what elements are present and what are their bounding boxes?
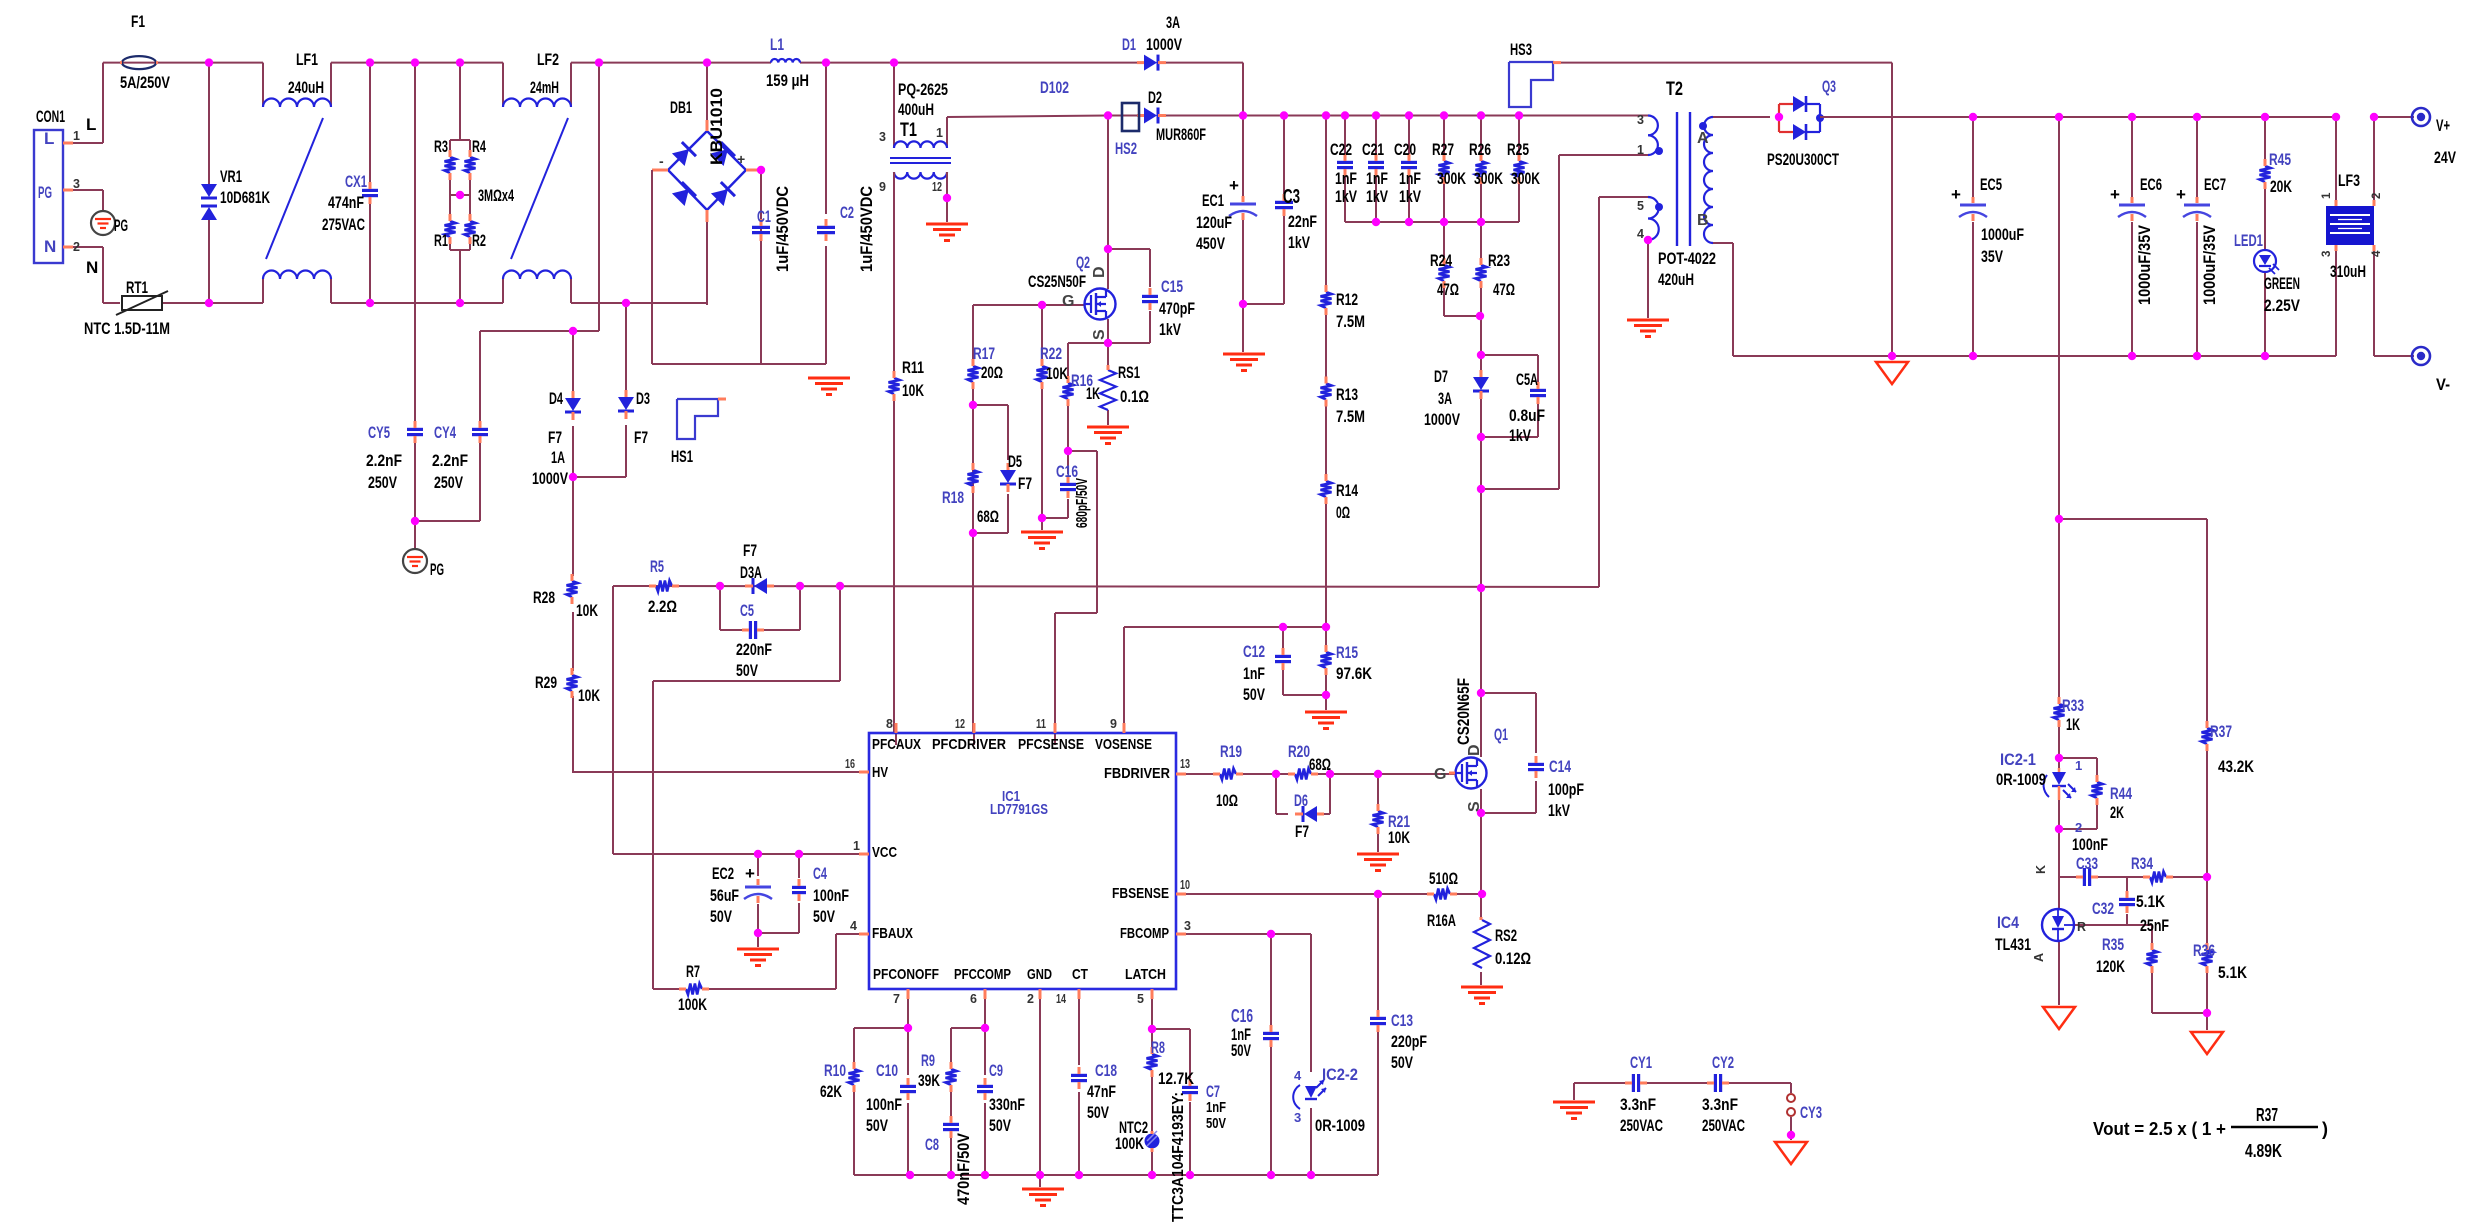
svg-text:LED1: LED1 [2234, 231, 2263, 250]
svg-text:1000uF/35V: 1000uF/35V [2135, 224, 2154, 305]
svg-text:V+: V+ [2436, 116, 2450, 135]
svg-text:GREEN: GREEN [2264, 274, 2300, 293]
svg-text:50V: 50V [1087, 1103, 1109, 1122]
svg-text:10K: 10K [1388, 828, 1411, 847]
svg-text:100nF: 100nF [866, 1095, 902, 1114]
svg-text:10D681K: 10D681K [220, 188, 271, 207]
svg-text:50V: 50V [813, 907, 835, 926]
svg-text:250VAC: 250VAC [1702, 1116, 1745, 1135]
svg-text:+: + [2110, 185, 2120, 204]
svg-text:R44: R44 [2110, 784, 2132, 803]
svg-text:R7: R7 [686, 962, 700, 981]
svg-text:470nF/50V: 470nF/50V [954, 1132, 973, 1205]
svg-text:D5: D5 [1008, 452, 1022, 471]
svg-text:L: L [44, 129, 54, 148]
svg-text:FBAUX: FBAUX [872, 925, 913, 942]
svg-text:CY3: CY3 [1800, 1103, 1822, 1122]
svg-text:0.8uF: 0.8uF [1509, 406, 1545, 425]
svg-text:12.7K: 12.7K [1158, 1069, 1195, 1088]
svg-text:K: K [2034, 865, 2048, 874]
svg-text:1: 1 [73, 129, 80, 143]
svg-text:R16A: R16A [1427, 911, 1456, 930]
svg-text:D: D [1091, 266, 1108, 278]
svg-text:5A/250V: 5A/250V [120, 73, 170, 92]
svg-text:56uF: 56uF [710, 886, 739, 905]
svg-text:-: - [659, 153, 664, 169]
svg-text:0.12Ω: 0.12Ω [1495, 949, 1531, 968]
svg-text:CS25N50F: CS25N50F [1028, 272, 1086, 291]
svg-text:S: S [1466, 801, 1483, 812]
svg-text:R37: R37 [2210, 722, 2232, 741]
svg-text:C32: C32 [2092, 899, 2114, 918]
svg-text:3A: 3A [1438, 389, 1452, 408]
svg-text:1000V: 1000V [1424, 410, 1460, 429]
svg-text:C22: C22 [1330, 140, 1352, 159]
svg-text:100nF: 100nF [2072, 835, 2108, 854]
svg-text:2: 2 [2371, 193, 2383, 199]
svg-text:1nF: 1nF [1399, 169, 1421, 188]
svg-text:3.3nF: 3.3nF [1702, 1095, 1738, 1114]
svg-text:F7: F7 [743, 541, 757, 560]
svg-text:510Ω: 510Ω [1429, 869, 1458, 888]
svg-text:3: 3 [879, 130, 886, 144]
svg-text:R29: R29 [535, 673, 557, 692]
svg-text:100K: 100K [1115, 1134, 1145, 1153]
svg-text:C14: C14 [1549, 757, 1571, 776]
svg-text:C2: C2 [840, 203, 854, 222]
svg-text:1nF: 1nF [1206, 1099, 1226, 1116]
svg-text:C20: C20 [1394, 140, 1416, 159]
svg-text:R4: R4 [472, 137, 486, 156]
svg-text:CX1: CX1 [345, 172, 367, 191]
svg-text:12: 12 [932, 180, 942, 194]
svg-text:+: + [745, 864, 755, 883]
svg-text:S: S [1091, 329, 1108, 340]
svg-text:EC7: EC7 [2204, 175, 2226, 194]
svg-text:24mH: 24mH [530, 78, 559, 97]
svg-text:C16: C16 [1231, 1006, 1253, 1026]
svg-text:50V: 50V [1206, 1115, 1226, 1132]
svg-text:Vout = 2.5 x ( 1 +: Vout = 2.5 x ( 1 + [2093, 1119, 2226, 1139]
svg-text:C5: C5 [740, 601, 754, 620]
svg-text:3: 3 [1637, 113, 1644, 127]
svg-text:50V: 50V [1391, 1053, 1413, 1072]
svg-text:HS1: HS1 [671, 447, 693, 466]
svg-text:120uF: 120uF [1196, 213, 1232, 232]
svg-text:CON1: CON1 [36, 107, 65, 126]
svg-text:RS1: RS1 [1118, 363, 1140, 382]
svg-text:10K: 10K [902, 381, 925, 400]
svg-text:3: 3 [1184, 919, 1191, 933]
svg-text:MUR860F: MUR860F [1156, 125, 1206, 144]
svg-text:2K: 2K [2110, 803, 2124, 822]
svg-text:R20: R20 [1288, 742, 1310, 761]
svg-text:220pF: 220pF [1391, 1032, 1427, 1051]
svg-text:1: 1 [2321, 192, 2333, 199]
svg-text:275VAC: 275VAC [322, 215, 365, 234]
svg-text:R: R [2077, 920, 2086, 934]
svg-text:1kV: 1kV [1366, 187, 1388, 206]
svg-text:25nF: 25nF [2140, 916, 2169, 935]
svg-text:9: 9 [1110, 717, 1117, 731]
svg-text:68Ω: 68Ω [977, 507, 999, 526]
svg-text:R26: R26 [1469, 140, 1491, 159]
svg-text:CY4: CY4 [434, 423, 456, 442]
svg-text:+: + [1951, 185, 1961, 204]
svg-text:D6: D6 [1294, 791, 1308, 810]
svg-text:420uH: 420uH [1658, 270, 1694, 289]
svg-text:50V: 50V [989, 1116, 1011, 1135]
svg-text:NTC 1.5D-11M: NTC 1.5D-11M [84, 319, 170, 338]
svg-text:VR1: VR1 [220, 167, 242, 186]
svg-text:R13: R13 [1336, 385, 1358, 404]
svg-text:PG: PG [114, 216, 128, 235]
svg-text:Q2: Q2 [1076, 253, 1090, 272]
svg-text:62K: 62K [820, 1082, 843, 1101]
svg-text:3A: 3A [1166, 13, 1180, 32]
svg-text:R25: R25 [1507, 140, 1529, 159]
svg-text:1kV: 1kV [1548, 801, 1570, 820]
svg-text:LF3: LF3 [2338, 171, 2360, 190]
svg-text:A: A [1697, 130, 1709, 147]
svg-text:0R-1009: 0R-1009 [1996, 770, 2046, 789]
svg-text:310uH: 310uH [2330, 262, 2366, 281]
svg-text:C10: C10 [876, 1061, 898, 1080]
svg-text:3.3nF: 3.3nF [1620, 1095, 1656, 1114]
svg-text:C18: C18 [1095, 1061, 1117, 1080]
svg-text:13: 13 [1180, 757, 1190, 771]
svg-text:3: 3 [2321, 251, 2333, 257]
svg-text:HV: HV [872, 764, 888, 781]
svg-text:50V: 50V [1231, 1041, 1251, 1060]
svg-text:R27: R27 [1432, 140, 1454, 159]
svg-text:R33: R33 [2062, 696, 2084, 715]
svg-text:C5A: C5A [1516, 370, 1538, 389]
svg-text:R18: R18 [942, 488, 964, 507]
svg-text:1: 1 [1637, 143, 1644, 157]
svg-text:D3A: D3A [740, 563, 762, 582]
svg-text:F7: F7 [1018, 474, 1032, 493]
svg-text:FBDRIVER: FBDRIVER [1104, 765, 1170, 782]
svg-text:1: 1 [853, 839, 860, 853]
svg-text:FBSENSE: FBSENSE [1112, 885, 1169, 902]
svg-text:R15: R15 [1336, 643, 1358, 662]
svg-text:T1: T1 [900, 120, 917, 141]
svg-text:DB1: DB1 [670, 98, 692, 117]
svg-text:LD7791GS: LD7791GS [990, 801, 1048, 818]
svg-text:4: 4 [1637, 227, 1644, 241]
svg-text:97.6K: 97.6K [1336, 664, 1373, 683]
svg-text:): ) [2322, 1119, 2328, 1139]
svg-text:F7: F7 [634, 428, 648, 447]
svg-text:R19: R19 [1220, 742, 1242, 761]
svg-text:KBU1010: KBU1010 [707, 88, 726, 165]
svg-text:1000V: 1000V [1146, 35, 1182, 54]
svg-text:22nF: 22nF [1288, 212, 1317, 231]
svg-text:R11: R11 [902, 358, 924, 377]
svg-text:PFCDRIVER: PFCDRIVER [932, 736, 1006, 753]
svg-text:FBCOMP: FBCOMP [1120, 925, 1169, 942]
svg-text:1kV: 1kV [1335, 187, 1357, 206]
svg-text:1K: 1K [1086, 384, 1100, 403]
svg-text:7: 7 [893, 992, 900, 1006]
svg-text:300K: 300K [1511, 169, 1541, 188]
svg-text:HS2: HS2 [1115, 139, 1137, 158]
svg-text:4: 4 [1294, 1068, 1302, 1083]
svg-text:R45: R45 [2269, 150, 2291, 169]
svg-text:4: 4 [850, 919, 857, 933]
svg-text:2.25V: 2.25V [2264, 296, 2301, 315]
svg-text:Q3: Q3 [1822, 77, 1836, 96]
svg-text:PS20U300CT: PS20U300CT [1767, 150, 1839, 169]
svg-text:D4: D4 [549, 389, 563, 408]
svg-text:1kV: 1kV [1288, 233, 1310, 252]
svg-text:1000uF/35V: 1000uF/35V [2200, 224, 2219, 305]
svg-text:C1: C1 [757, 207, 771, 226]
svg-text:PFCCOMP: PFCCOMP [954, 966, 1011, 983]
svg-text:9: 9 [879, 180, 886, 194]
svg-text:R8: R8 [1151, 1038, 1165, 1057]
svg-text:2.2nF: 2.2nF [432, 451, 468, 470]
svg-text:24V: 24V [2434, 148, 2456, 167]
svg-text:C3: C3 [1283, 186, 1300, 208]
svg-text:R35: R35 [2102, 935, 2124, 954]
svg-text:4: 4 [2371, 250, 2383, 257]
svg-text:330nF: 330nF [989, 1095, 1025, 1114]
svg-text:R10: R10 [824, 1061, 846, 1080]
svg-text:47nF: 47nF [1087, 1082, 1116, 1101]
svg-text:50V: 50V [710, 907, 732, 926]
svg-text:10K: 10K [1046, 364, 1069, 383]
svg-text:IC4: IC4 [1997, 913, 2019, 932]
svg-text:R5: R5 [650, 557, 664, 576]
svg-text:1000V: 1000V [532, 469, 568, 488]
svg-text:2: 2 [2075, 820, 2082, 835]
svg-text:1kV: 1kV [1509, 426, 1531, 445]
svg-text:3MΩx4: 3MΩx4 [478, 186, 514, 205]
svg-text:R24: R24 [1430, 251, 1452, 270]
svg-text:R2: R2 [472, 231, 486, 250]
svg-text:TL431: TL431 [1995, 935, 2031, 954]
svg-text:C8: C8 [925, 1135, 939, 1154]
svg-text:1: 1 [2075, 758, 2082, 773]
svg-text:300K: 300K [1437, 169, 1467, 188]
svg-text:100pF: 100pF [1548, 780, 1584, 799]
svg-text:D3: D3 [636, 389, 650, 408]
svg-text:D2: D2 [1148, 88, 1162, 107]
svg-text:5.1K: 5.1K [2218, 963, 2248, 982]
svg-text:D1: D1 [1122, 35, 1136, 54]
svg-text:5.1K: 5.1K [2136, 892, 2166, 911]
svg-text:PG: PG [430, 560, 444, 579]
svg-text:16: 16 [845, 757, 855, 771]
svg-text:+: + [2176, 185, 2186, 204]
svg-text:+: + [1229, 176, 1239, 195]
svg-text:HS3: HS3 [1510, 40, 1532, 59]
svg-text:R3: R3 [434, 137, 448, 156]
svg-text:RT1: RT1 [126, 278, 148, 297]
svg-text:N: N [86, 258, 98, 277]
svg-text:1000uF: 1000uF [1981, 225, 2024, 244]
svg-text:1nF: 1nF [1366, 169, 1388, 188]
svg-text:2: 2 [73, 240, 80, 254]
svg-text:0.1Ω: 0.1Ω [1120, 387, 1149, 406]
svg-text:35V: 35V [1981, 247, 2003, 266]
svg-text:L1: L1 [770, 35, 784, 54]
svg-text:10K: 10K [578, 686, 601, 705]
svg-text:4.89K: 4.89K [2245, 1141, 2282, 1161]
svg-text:0Ω: 0Ω [1336, 503, 1350, 522]
svg-text:47Ω: 47Ω [1437, 280, 1459, 299]
svg-text:1uF/450VDC: 1uF/450VDC [857, 186, 876, 272]
svg-text:400uH: 400uH [898, 100, 934, 119]
svg-text:LF2: LF2 [537, 50, 559, 69]
svg-text:+: + [737, 151, 745, 167]
svg-text:R9: R9 [921, 1051, 935, 1070]
svg-text:R17: R17 [973, 344, 995, 363]
svg-text:TTC3A104F4193EY:: TTC3A104F4193EY: [1170, 1092, 1187, 1222]
svg-text:PQ-2625: PQ-2625 [898, 80, 948, 99]
svg-text:LF1: LF1 [296, 50, 318, 69]
svg-text:2.2nF: 2.2nF [366, 451, 402, 470]
svg-text:R28: R28 [533, 588, 555, 607]
svg-text:120K: 120K [2096, 957, 2126, 976]
svg-text:CY5: CY5 [368, 423, 390, 442]
svg-text:F1: F1 [131, 12, 145, 31]
svg-text:50V: 50V [866, 1116, 888, 1135]
svg-text:PFCONOFF: PFCONOFF [873, 966, 939, 983]
svg-text:5: 5 [1137, 992, 1144, 1006]
svg-text:220nF: 220nF [736, 640, 772, 659]
svg-text:240uH: 240uH [288, 78, 324, 97]
svg-text:10: 10 [1180, 878, 1190, 892]
svg-text:2.2Ω: 2.2Ω [648, 597, 677, 616]
svg-text:VCC: VCC [872, 844, 897, 861]
svg-text:A: A [2032, 953, 2046, 962]
svg-text:R12: R12 [1336, 290, 1358, 309]
svg-text:6: 6 [970, 992, 977, 1006]
svg-text:100K: 100K [678, 995, 708, 1014]
svg-text:100nF: 100nF [813, 886, 849, 905]
svg-text:CY2: CY2 [1712, 1053, 1734, 1072]
svg-text:R37: R37 [2256, 1105, 2278, 1125]
svg-text:F7: F7 [548, 428, 562, 447]
svg-text:PG: PG [38, 183, 52, 202]
svg-text:250VAC: 250VAC [1620, 1116, 1663, 1135]
svg-text:2: 2 [1027, 992, 1034, 1006]
svg-text:680pF/50V: 680pF/50V [1074, 478, 1091, 528]
svg-text:20Ω: 20Ω [981, 363, 1003, 382]
svg-text:C21: C21 [1362, 140, 1384, 159]
svg-text:C4: C4 [813, 864, 827, 883]
svg-text:14: 14 [1056, 992, 1066, 1006]
svg-text:R23: R23 [1488, 251, 1510, 270]
svg-text:CY1: CY1 [1630, 1053, 1652, 1072]
svg-text:V-: V- [2436, 375, 2450, 394]
svg-text:8: 8 [886, 717, 893, 731]
svg-text:IC2-1: IC2-1 [2000, 750, 2036, 769]
svg-text:1: 1 [936, 126, 943, 140]
svg-text:POT-4022: POT-4022 [1658, 249, 1716, 268]
svg-text:R14: R14 [1336, 481, 1358, 500]
svg-text:D: D [1466, 744, 1483, 756]
svg-text:3: 3 [1294, 1110, 1301, 1125]
svg-text:GND: GND [1027, 966, 1052, 983]
svg-text:G: G [1062, 293, 1074, 310]
svg-text:250V: 250V [368, 473, 397, 492]
svg-text:C15: C15 [1161, 277, 1183, 296]
svg-text:C12: C12 [1243, 642, 1265, 661]
svg-text:C9: C9 [989, 1061, 1003, 1080]
svg-text:1nF: 1nF [1243, 664, 1265, 683]
svg-text:10K: 10K [576, 601, 599, 620]
svg-text:450V: 450V [1196, 234, 1225, 253]
svg-text:EC5: EC5 [1980, 175, 2002, 194]
svg-text:PFCAUX: PFCAUX [872, 736, 921, 753]
svg-text:7.5M: 7.5M [1336, 312, 1365, 331]
svg-text:R22: R22 [1040, 344, 1062, 363]
svg-text:PFCSENSE: PFCSENSE [1018, 736, 1084, 753]
svg-text:250V: 250V [434, 473, 463, 492]
svg-text:470pF: 470pF [1159, 299, 1195, 318]
svg-text:39K: 39K [918, 1071, 941, 1090]
svg-text:12: 12 [955, 717, 965, 731]
svg-text:43.2K: 43.2K [2218, 757, 2255, 776]
svg-text:C33: C33 [2076, 854, 2098, 873]
svg-text:474nF: 474nF [328, 193, 364, 212]
svg-text:EC1: EC1 [1202, 191, 1224, 210]
svg-text:10Ω: 10Ω [1216, 791, 1238, 810]
svg-text:R1: R1 [434, 231, 448, 250]
svg-text:G: G [1434, 766, 1446, 783]
svg-text:5: 5 [1637, 199, 1644, 213]
svg-text:20K: 20K [2270, 177, 2293, 196]
svg-text:0R-1009: 0R-1009 [1315, 1116, 1365, 1135]
svg-text:11: 11 [1036, 717, 1046, 731]
svg-text:CS20N65F: CS20N65F [1454, 678, 1473, 745]
svg-text:1K: 1K [2066, 715, 2080, 734]
svg-text:CT: CT [1072, 966, 1088, 983]
svg-text:T2: T2 [1666, 79, 1683, 100]
svg-text:B: B [1697, 212, 1709, 229]
svg-text:F7: F7 [1295, 822, 1309, 841]
svg-text:L: L [86, 115, 96, 134]
svg-text:47Ω: 47Ω [1493, 280, 1515, 299]
svg-text:50V: 50V [1243, 685, 1265, 704]
svg-text:N: N [44, 237, 56, 256]
svg-text:68Ω: 68Ω [1309, 755, 1331, 774]
svg-text:1kV: 1kV [1399, 187, 1421, 206]
svg-text:D7: D7 [1434, 367, 1448, 386]
svg-text:159 μH: 159 μH [766, 71, 809, 90]
svg-text:300K: 300K [1474, 169, 1504, 188]
svg-text:7.5M: 7.5M [1336, 407, 1365, 426]
svg-text:IC2-2: IC2-2 [1322, 1065, 1358, 1084]
svg-text:R36: R36 [2193, 941, 2215, 960]
svg-text:VOSENSE: VOSENSE [1095, 736, 1152, 753]
svg-text:1A: 1A [551, 448, 565, 467]
svg-text:1kV: 1kV [1159, 320, 1181, 339]
svg-text:3: 3 [73, 177, 80, 191]
svg-text:50V: 50V [736, 661, 758, 680]
svg-text:1uF/450VDC: 1uF/450VDC [773, 186, 792, 272]
svg-text:RS2: RS2 [1495, 926, 1517, 945]
svg-text:EC2: EC2 [712, 864, 734, 883]
svg-text:1nF: 1nF [1335, 169, 1357, 188]
svg-text:EC6: EC6 [2140, 175, 2162, 194]
svg-text:R34: R34 [2131, 854, 2153, 873]
svg-text:D102: D102 [1040, 78, 1069, 97]
